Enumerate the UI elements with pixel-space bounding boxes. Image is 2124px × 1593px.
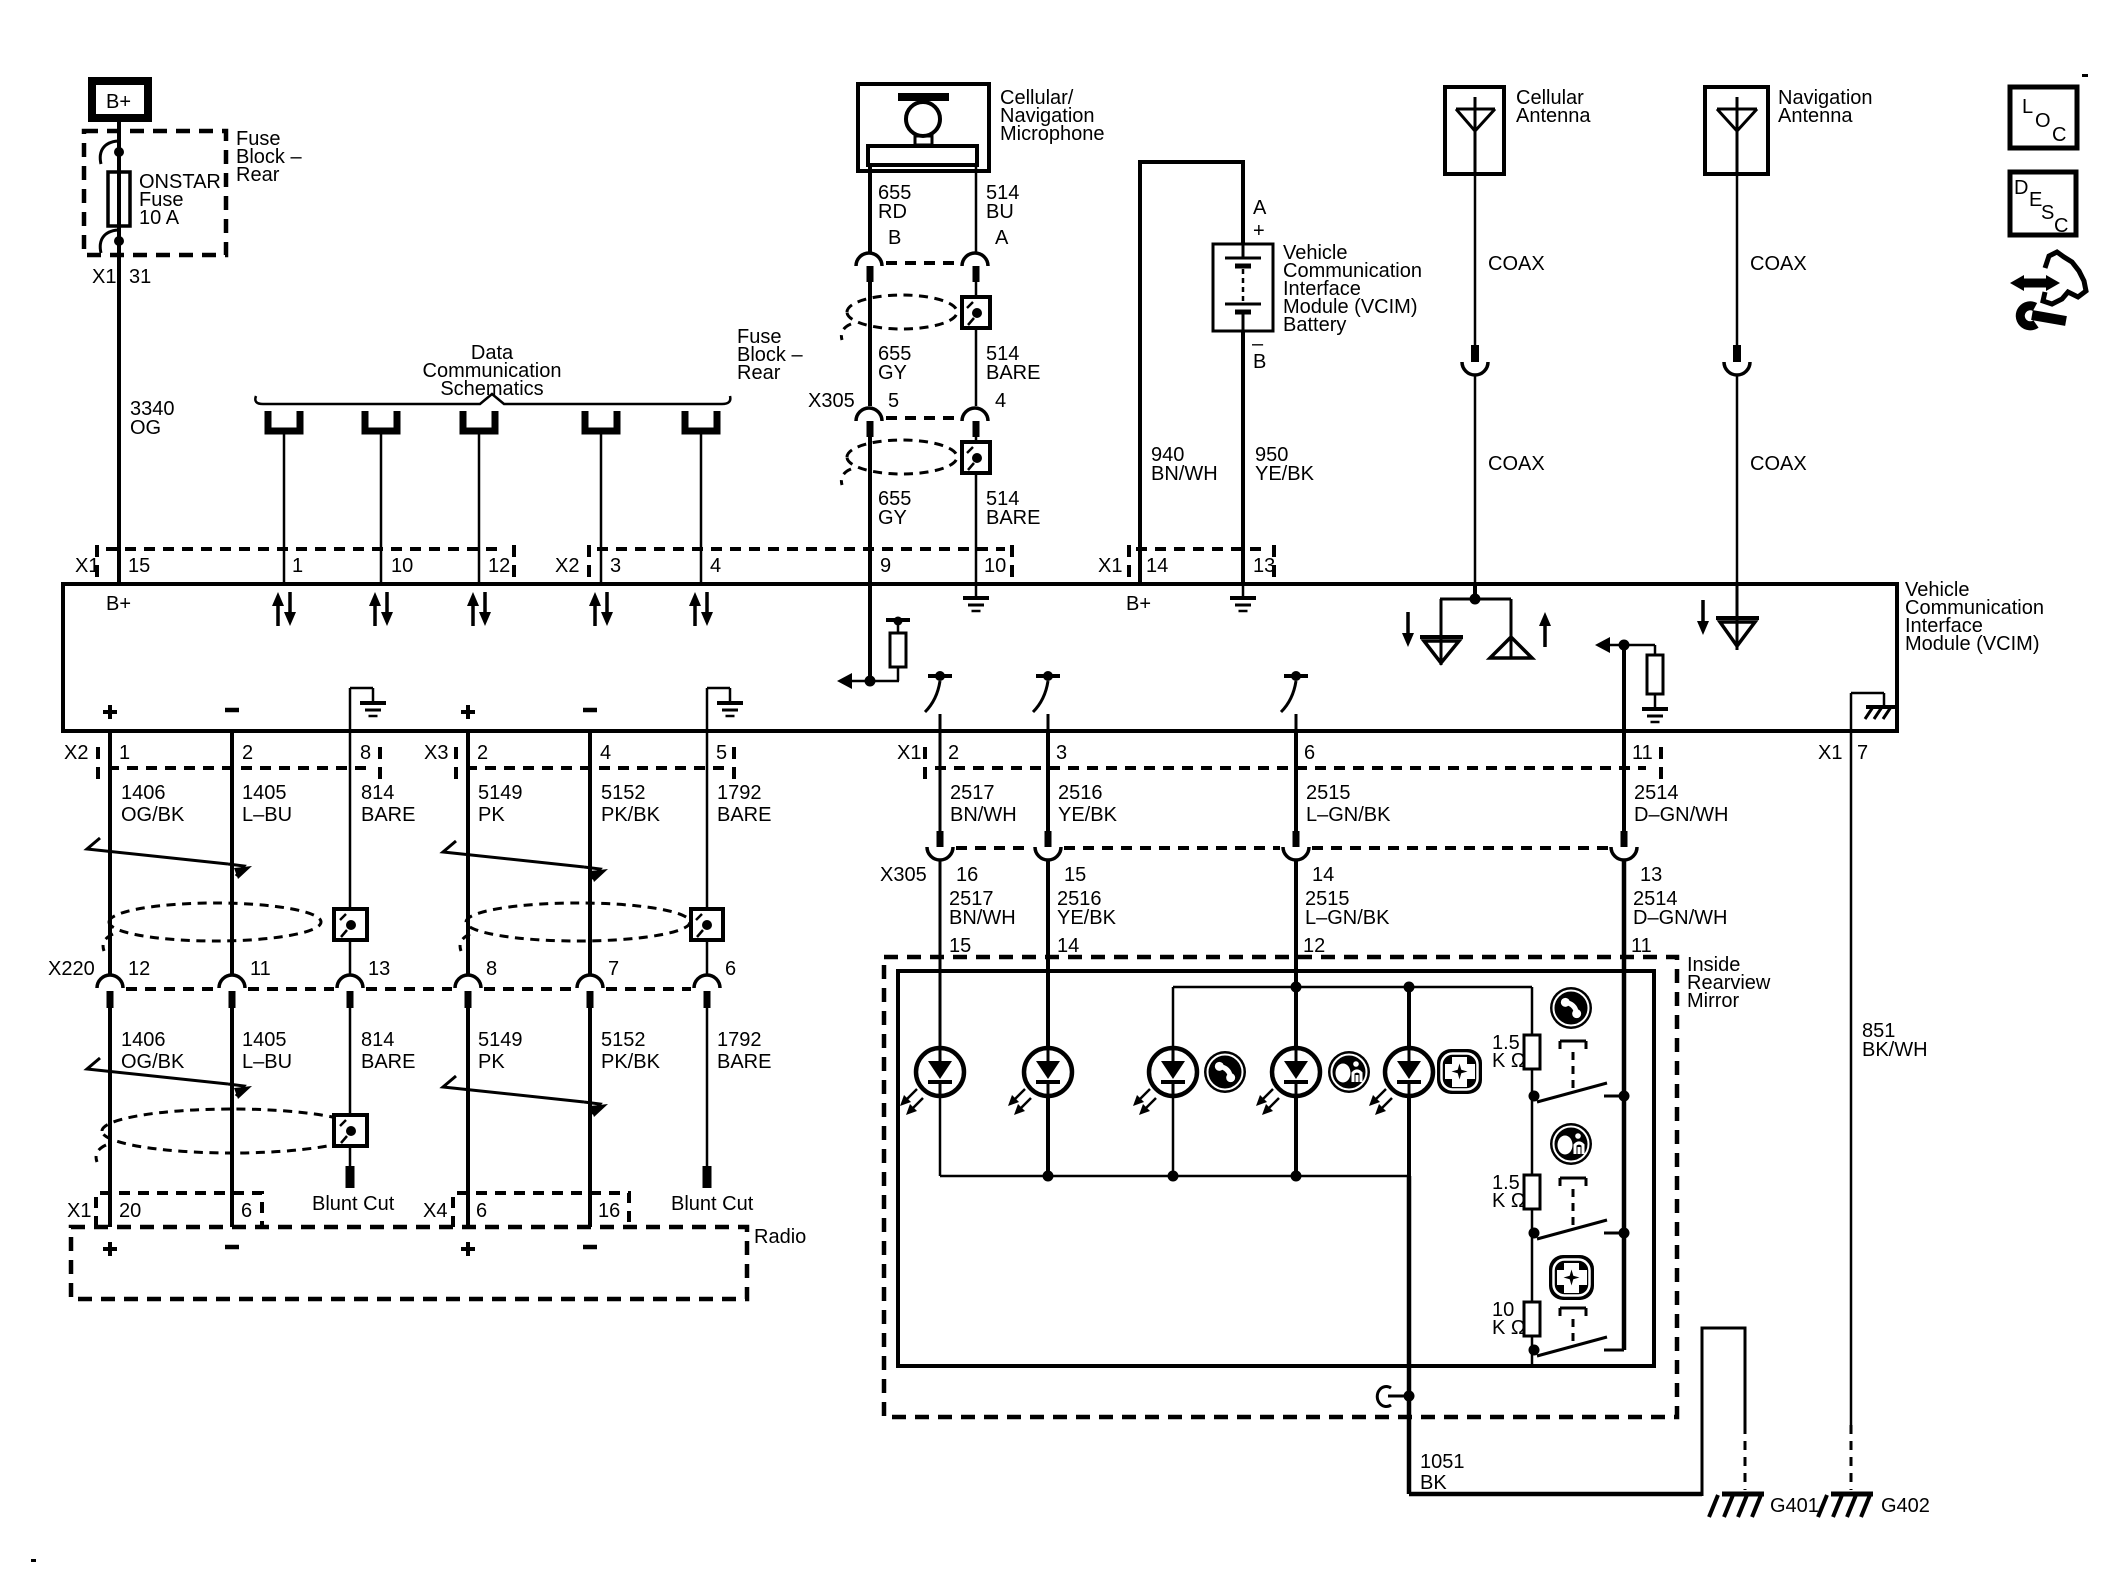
svg-text:GY: GY	[878, 507, 907, 529]
service information icon	[2010, 252, 2086, 326]
colon X1 bottom	[923, 747, 927, 779]
anode bus wire	[1173, 986, 1532, 989]
inline connector X220 pin 7	[577, 975, 603, 1008]
wire LED4 cathode	[1294, 1095, 1298, 1176]
label Data Communication Schematics	[423, 342, 562, 400]
drain wire symbol mic upper	[962, 297, 990, 328]
wire 1792 BARE upper	[706, 731, 709, 976]
shield ellipse row2 left	[96, 1109, 362, 1162]
wire to VCIM pin 4	[700, 434, 703, 584]
svg-text:BARE: BARE	[986, 362, 1040, 384]
internal cellular antenna network	[1420, 584, 1532, 665]
wire 2516 YE/BK lower	[1046, 860, 1050, 971]
rx arrow cellular	[1402, 612, 1414, 647]
svg-text:A: A	[1253, 197, 1267, 219]
svg-text:814: 814	[361, 1029, 394, 1051]
radio plus pin 20	[103, 1242, 117, 1256]
svg-text:1: 1	[119, 742, 130, 764]
mark top right	[2082, 74, 2088, 77]
svg-text:YE/BK: YE/BK	[1255, 463, 1315, 485]
colon after pin 5	[732, 747, 736, 779]
wire 1792 BARE lower	[706, 1008, 709, 1166]
label 1405 L-BU lower	[242, 1029, 292, 1073]
wire 814 BARE upper	[349, 731, 352, 976]
dashed lead to G401	[1744, 1425, 1747, 1490]
label 5152 PK/BK upper	[601, 782, 661, 826]
connector symbol data link 2	[365, 411, 397, 431]
actuator link switch 2	[1560, 1178, 1586, 1225]
rx arrow navigation	[1697, 600, 1709, 635]
svg-text:B+: B+	[106, 593, 131, 615]
wire switch3 to board edge	[1531, 1350, 1534, 1366]
drain wire symbol row1 left	[334, 909, 367, 940]
battery feed B+ terminal	[92, 81, 148, 118]
label 1406 OG/BK lower	[121, 1029, 185, 1073]
svg-text:OG/BK: OG/BK	[121, 1051, 185, 1073]
phone symbol switch 1	[1550, 987, 1592, 1029]
fuse terminal clip top	[100, 141, 124, 164]
internal chassis ground pin 7	[1851, 693, 1898, 731]
svg-text:13: 13	[1640, 864, 1662, 886]
svg-text:PK: PK	[478, 804, 505, 826]
LED4 indicator	[1256, 1048, 1320, 1115]
wire 1051 BK common return	[1407, 1176, 1412, 1494]
svg-text:9: 9	[880, 555, 891, 577]
svg-text:S: S	[2041, 202, 2054, 224]
resistor 1.5 Kohm phone	[1524, 1035, 1540, 1069]
svg-text:BARE: BARE	[361, 1051, 415, 1073]
shield ellipse mic upper	[841, 295, 957, 340]
wire 655 RD	[868, 165, 872, 252]
colon after pin 8	[378, 747, 382, 779]
radio minus pin 16	[583, 1245, 597, 1250]
inline connector X305 pin 5	[856, 408, 882, 437]
svg-text:5152: 5152	[601, 1029, 646, 1051]
svg-text:5: 5	[716, 742, 727, 764]
svg-text:BU: BU	[986, 201, 1014, 223]
svg-text:Antenna: Antenna	[1778, 105, 1853, 127]
svg-text:12: 12	[488, 555, 510, 577]
svg-text:14: 14	[1146, 555, 1168, 577]
svg-text:PK: PK	[478, 1051, 505, 1073]
svg-text:6: 6	[476, 1200, 487, 1222]
clip connector on 1051 wire	[1377, 1386, 1414, 1406]
svg-text:5149: 5149	[478, 1029, 523, 1051]
svg-text:15: 15	[128, 555, 150, 577]
radio connector X4 labels	[423, 1200, 620, 1222]
label 2517 BN/WH lower	[949, 888, 1016, 929]
twisted pair symbol row2 right	[443, 1076, 608, 1117]
connector dashed line below VCIM X2	[108, 766, 370, 770]
connector symbol data link 3	[463, 411, 495, 431]
svg-text:Microphone: Microphone	[1000, 123, 1105, 145]
internal ground pin 10	[963, 584, 989, 611]
svg-text:Blunt Cut: Blunt Cut	[671, 1193, 754, 1215]
drain wire symbol row1 right	[691, 909, 723, 940]
svg-text:5152: 5152	[601, 782, 646, 804]
wire 5149 PK upper	[466, 731, 470, 976]
svg-text:BARE: BARE	[717, 1051, 771, 1073]
svg-text:12: 12	[1303, 935, 1325, 957]
label - B battery negative	[1252, 333, 1266, 373]
svg-text:BN/WH: BN/WH	[950, 804, 1017, 826]
switch 2 onstar	[1529, 1220, 1630, 1239]
VCIM module box	[63, 584, 1897, 731]
colon after pin 11	[1659, 747, 1663, 779]
svg-text:Mirror: Mirror	[1687, 990, 1740, 1012]
navigation antenna	[1705, 87, 1768, 174]
svg-text:20: 20	[119, 1200, 141, 1222]
svg-text:K Ω: K Ω	[1492, 1050, 1526, 1072]
colon after pin 10	[1010, 545, 1014, 577]
svg-text:Module (VCIM): Module (VCIM)	[1905, 633, 2039, 655]
wire 1406 OG/BK lower	[108, 1008, 112, 1227]
svg-text:4: 4	[995, 390, 1006, 412]
label Cellular Antenna	[1516, 87, 1591, 127]
label 10 K ohm	[1492, 1299, 1526, 1339]
label Fuse Block - Rear	[236, 128, 302, 186]
label 2515 L-GN/BK upper	[1306, 782, 1391, 826]
resistor 1.5 Kohm onstar	[1524, 1175, 1540, 1209]
internal plus pin X2-1	[103, 705, 117, 719]
drain wire symbol mic lower	[962, 442, 990, 473]
svg-text:X220: X220	[48, 958, 95, 980]
wire to VCIM pin 3	[600, 434, 603, 584]
wire 5152 PK/BK lower	[588, 1008, 592, 1227]
svg-text:8: 8	[360, 742, 371, 764]
label 2515 L-GN/BK lower	[1305, 888, 1390, 929]
svg-text:L–BU: L–BU	[242, 804, 292, 826]
svg-text:1406: 1406	[121, 782, 166, 804]
node anode bus / 2515	[1291, 982, 1302, 993]
svg-text:4: 4	[600, 742, 611, 764]
svg-text:2516: 2516	[1058, 782, 1103, 804]
bidirectional arrows pin 4	[689, 592, 713, 626]
svg-text:X1: X1	[1818, 742, 1842, 764]
wire LED2 anode	[1046, 971, 1050, 1049]
svg-text:B+: B+	[106, 91, 131, 113]
connector interface dashed line mic	[886, 261, 960, 265]
label 1.5 K ohm phone	[1492, 1032, 1526, 1072]
wire 5152 PK/BK upper	[588, 731, 592, 976]
svg-text:1792: 1792	[717, 782, 762, 804]
svg-text:7: 7	[608, 958, 619, 980]
connector dashed line above VCIM mid	[597, 547, 1005, 551]
bidirectional arrows pin 1	[272, 592, 296, 626]
svg-text:GY: GY	[878, 362, 907, 384]
svg-text:G402: G402	[1881, 1495, 1930, 1517]
svg-text:X1: X1	[67, 1200, 91, 1222]
inline connector X220 pin 8	[455, 975, 481, 1008]
wire 514 BU	[975, 165, 978, 252]
svg-text:X4: X4	[423, 1200, 447, 1222]
connector dashed line above VCIM left	[106, 547, 505, 551]
actuator link switch 1	[1560, 1041, 1586, 1088]
ground G402	[1818, 1494, 1873, 1517]
drain wire symbol row2 left	[334, 1115, 367, 1146]
svg-text:X305: X305	[880, 864, 927, 886]
connector dashed line above VCIM right	[1136, 547, 1266, 551]
svg-text:2515: 2515	[1306, 782, 1351, 804]
label Fuse Block - Rear (second)	[737, 326, 803, 384]
svg-text:COAX: COAX	[1488, 453, 1545, 475]
label 3340 OG	[130, 398, 175, 439]
node cathode bus LED4	[1291, 1171, 1302, 1182]
wire 3340 OG	[117, 262, 121, 584]
inline connector X305 pin 4	[962, 408, 988, 437]
svg-text:BN/WH: BN/WH	[949, 907, 1016, 929]
wire LED3 cathode	[1172, 1095, 1175, 1176]
wire switch1 to resistor2	[1531, 1096, 1534, 1175]
wire 2514 D-GN/WH upper	[1622, 731, 1626, 831]
svg-text:L–BU: L–BU	[242, 1051, 292, 1073]
wire LED1 cathode	[939, 1095, 942, 1176]
label 514 BARE upper	[986, 343, 1040, 384]
inline connector X305 pin 16	[927, 831, 953, 860]
svg-text:Schematics: Schematics	[440, 378, 543, 400]
svg-text:8: 8	[486, 958, 497, 980]
svg-text:OG/BK: OG/BK	[121, 804, 185, 826]
bidirectional arrows pin 10	[369, 592, 393, 626]
wire LED1 anode	[939, 971, 942, 1049]
svg-text:YE/BK: YE/BK	[1058, 804, 1118, 826]
svg-text:B: B	[1253, 351, 1266, 373]
svg-text:2514: 2514	[1634, 782, 1679, 804]
svg-text:COAX: COAX	[1488, 253, 1545, 275]
resistor 10 Kohm medical	[1524, 1302, 1540, 1336]
colon X1 top left	[95, 545, 99, 577]
wire fuse to pin X1-31	[117, 226, 121, 262]
svg-text:X1: X1	[75, 555, 99, 577]
mirror circuit board box	[898, 971, 1654, 1366]
svg-text:BARE: BARE	[986, 507, 1040, 529]
onstar symbol LED4	[1328, 1051, 1370, 1093]
svg-text:Antenna: Antenna	[1516, 105, 1591, 127]
svg-text:1405: 1405	[242, 1029, 287, 1051]
wire resistor1 to switch1	[1531, 1069, 1534, 1096]
onstar symbol switch 2	[1550, 1123, 1592, 1165]
inline coax connector navigation	[1724, 345, 1750, 375]
inline coax connector cellular	[1462, 345, 1488, 375]
svg-text:Radio: Radio	[754, 1226, 806, 1248]
LOC reference box	[2010, 87, 2077, 148]
wire switch2 to resistor3	[1531, 1233, 1534, 1302]
svg-text:C: C	[2054, 215, 2068, 237]
wire LED2 cathode	[1046, 1095, 1050, 1176]
coax wire cellular upper	[1474, 174, 1477, 346]
svg-text:BN/WH: BN/WH	[1151, 463, 1218, 485]
svg-text:OG: OG	[130, 417, 161, 439]
connector dashed line below VCIM X3	[466, 766, 726, 770]
svg-text:BARE: BARE	[361, 804, 415, 826]
svg-text:YE/BK: YE/BK	[1057, 907, 1117, 929]
label 655 RD	[878, 182, 911, 223]
inline connector mic pin B	[856, 253, 882, 282]
internal wire pin 11	[1622, 645, 1626, 731]
svg-text:6: 6	[241, 1200, 252, 1222]
svg-text:1792: 1792	[717, 1029, 762, 1051]
wire 814 BARE lower	[349, 1008, 352, 1166]
connector symbol data link 5	[685, 411, 717, 431]
label 950 YE/BK	[1255, 444, 1315, 485]
wire 1406 OG/BK upper	[108, 731, 112, 976]
shield ellipse row1 right	[460, 903, 690, 951]
wire 2516 YE/BK upper	[1046, 731, 1050, 831]
svg-text:BARE: BARE	[717, 804, 771, 826]
svg-text:11: 11	[1632, 742, 1653, 764]
wire LED4 anode	[1294, 971, 1298, 1049]
svg-text:3: 3	[610, 555, 621, 577]
internal switch pin X1-6	[1281, 671, 1308, 731]
internal switch pin X1-3	[1033, 671, 1060, 731]
bidirectional arrows pin 12	[467, 592, 491, 626]
connector dashed line below VCIM X1	[935, 766, 1646, 770]
inline connector X220 pin 12	[97, 975, 123, 1008]
label 940 BN/WH	[1151, 444, 1218, 485]
DESC reference box	[2010, 172, 2076, 237]
bidirectional arrows pin 3	[589, 592, 613, 626]
label 655 GY upper	[878, 343, 911, 384]
svg-text:11: 11	[250, 958, 271, 980]
svg-text:2: 2	[242, 742, 253, 764]
wire 1405 L-BU lower	[230, 1008, 234, 1227]
label 814 BARE lower	[361, 1029, 415, 1073]
twisted pair symbol row1 right	[443, 841, 608, 882]
phone symbol LED3	[1204, 1051, 1246, 1093]
svg-text:A: A	[995, 227, 1009, 249]
connector X1 pin 31 labels	[92, 266, 151, 288]
svg-text:7: 7	[1857, 742, 1868, 764]
wire 1051 run to ground	[1409, 1492, 1702, 1497]
label 2516 YE/BK upper	[1058, 782, 1118, 826]
internal minus pin X3-4	[583, 708, 597, 713]
svg-text:1406: 1406	[121, 1029, 166, 1051]
inline connector X305 pin 14	[1283, 831, 1309, 860]
label 851 BK/WH	[1862, 1020, 1928, 1061]
svg-text:PK/BK: PK/BK	[601, 1051, 661, 1073]
twisted pair symbol row2 left	[87, 1058, 252, 1099]
colon X1 top right	[1127, 545, 1131, 577]
internal ground pin X3-5	[707, 688, 743, 731]
svg-text:3: 3	[1056, 742, 1067, 764]
label 814 BARE upper	[361, 782, 415, 826]
svg-text:5149: 5149	[478, 782, 523, 804]
radio connector X4 dashed shell	[453, 1193, 629, 1227]
label 1.5 K ohm onstar	[1492, 1172, 1526, 1212]
internal ground pin X2-8	[350, 688, 386, 731]
label ONSTAR Fuse 10 A	[139, 171, 221, 229]
svg-text:X1: X1	[897, 742, 921, 764]
shield ellipse mic lower	[841, 440, 957, 485]
inline connector X305 pin 15	[1035, 831, 1061, 860]
label Navigation Antenna	[1778, 87, 1873, 127]
svg-text:6: 6	[725, 958, 736, 980]
radio connector X1 dashed shell	[96, 1193, 262, 1227]
inline connector X220 pin 11	[219, 975, 245, 1008]
internal resistor pin 11	[1595, 637, 1668, 722]
blunt cut wire 1792	[703, 1166, 712, 1188]
svg-text:D: D	[2014, 177, 2028, 199]
svg-text:16: 16	[598, 1200, 620, 1222]
label Cellular Navigation Microphone	[1000, 87, 1105, 145]
wire B+ to fuse	[117, 118, 121, 172]
dashed lead to G402	[1850, 1425, 1853, 1490]
label 1406 OG/BK upper	[121, 782, 185, 826]
inline connector X220 pin 6	[694, 975, 720, 1008]
node cathode bus LED2	[1043, 1171, 1054, 1182]
fuse block rear housing (dashed)	[84, 131, 226, 255]
wire 950 YE/BK	[1241, 331, 1245, 584]
svg-text:COAX: COAX	[1750, 453, 1807, 475]
wire to VCIM pin 10	[380, 434, 383, 584]
switch 1 phone	[1529, 1083, 1630, 1102]
wire 940 BN/WH riser	[1140, 162, 1243, 584]
connector interface dashed line X305 mirror	[956, 846, 1608, 850]
radio connector X1 labels	[67, 1200, 252, 1222]
coax wire cellular lower	[1474, 375, 1477, 584]
coax wire navigation lower	[1736, 375, 1739, 584]
wire LED5 anode	[1407, 987, 1411, 1049]
svg-text:16: 16	[956, 864, 978, 886]
microphone icon	[868, 93, 977, 165]
svg-text:L–GN/BK: L–GN/BK	[1306, 804, 1391, 826]
switch 3 medical	[1529, 1337, 1625, 1356]
wire 2515 L-GN/BK upper	[1294, 731, 1298, 831]
colon X2 bottom	[96, 747, 100, 779]
svg-text:15: 15	[1064, 864, 1086, 886]
label 2517 BN/WH upper	[950, 782, 1017, 826]
node cathode bus LED3	[1168, 1171, 1179, 1182]
blunt cut wire 814	[346, 1166, 355, 1188]
svg-text:1051: 1051	[1420, 1451, 1465, 1473]
svg-text:Battery: Battery	[1283, 314, 1346, 336]
wire LED5 cathode / common return	[1407, 1095, 1411, 1176]
colon after pin 13	[1272, 545, 1276, 577]
label 514 BU	[986, 182, 1019, 223]
fuse terminal clip bottom	[100, 230, 124, 253]
svg-text:X1: X1	[1098, 555, 1122, 577]
label 2514 D-GN/WH upper	[1634, 782, 1728, 826]
cathode bus wire	[940, 1175, 1409, 1178]
medical cross symbol LED5	[1437, 1049, 1482, 1094]
svg-text:31: 31	[129, 266, 151, 288]
wire anode bus to resistor chain	[1531, 987, 1534, 1035]
wire 2514 D-GN/WH lower	[1622, 860, 1627, 1350]
coax wire navigation upper	[1736, 174, 1739, 346]
label VCIM Battery	[1283, 242, 1422, 336]
svg-text:K Ω: K Ω	[1492, 1190, 1526, 1212]
svg-text:13: 13	[1253, 555, 1275, 577]
svg-text:B+: B+	[1126, 593, 1151, 615]
wire 2517 BN/WH lower	[939, 860, 942, 971]
svg-text:14: 14	[1312, 864, 1334, 886]
svg-text:BK/WH: BK/WH	[1862, 1039, 1928, 1061]
svg-text:C: C	[2052, 124, 2066, 146]
svg-text:6: 6	[1304, 742, 1315, 764]
LED1 indicator	[900, 1048, 964, 1115]
mark bottom left	[31, 1559, 36, 1562]
svg-text:10: 10	[391, 555, 413, 577]
connector interface dashed line X220	[126, 987, 691, 991]
LED2 indicator	[1008, 1048, 1072, 1115]
internal minus pin X2-2	[225, 708, 239, 713]
svg-text:14: 14	[1057, 935, 1079, 957]
label 1792 BARE upper	[717, 782, 771, 826]
actuator link switch 3	[1560, 1308, 1586, 1344]
wire 2517 BN/WH upper	[939, 731, 942, 831]
svg-text:G401: G401	[1770, 1495, 1819, 1517]
svg-text:2: 2	[948, 742, 959, 764]
